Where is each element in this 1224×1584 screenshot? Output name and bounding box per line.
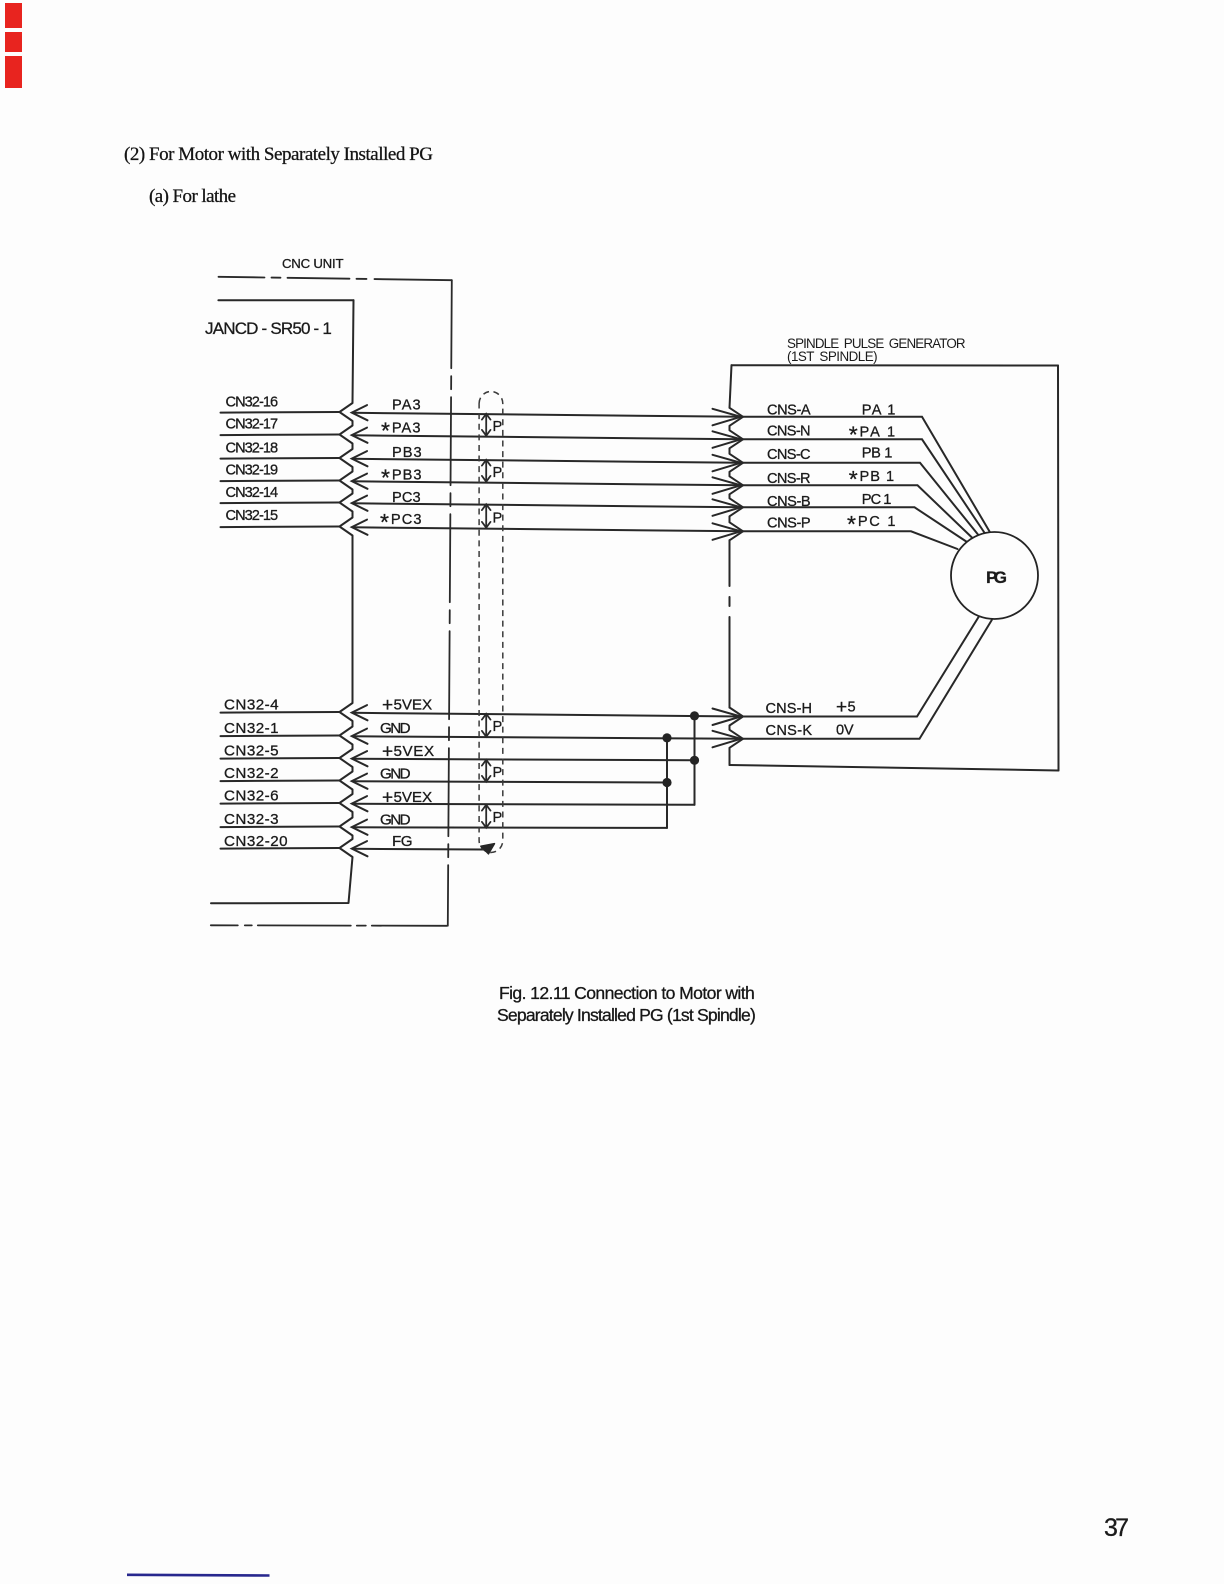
blue ink line bottom left <box>127 1574 270 1577</box>
svg-text:Fig. 12.11 Connection to Moto: Fig. 12.11 Connection to Motor with <box>499 983 755 1003</box>
twisted pair symbol P 3 <box>482 504 503 527</box>
pin row CN32-18 / signal PB3 wire to CNS-C <box>221 441 981 538</box>
svg-text:*PB 1: *PB 1 <box>849 466 895 492</box>
svg-text:GND: GND <box>380 766 411 783</box>
svg-text:Separately Installed PG (1st S: Separately Installed PG (1st Spindle) <box>497 1005 756 1025</box>
svg-text:0V: 0V <box>836 722 854 738</box>
svg-text:JANCD - SR50 - 1: JANCD - SR50 - 1 <box>205 319 334 338</box>
PG box top edge <box>732 364 1059 366</box>
svg-text:CN32-1: CN32-1 <box>224 720 279 737</box>
JANCD board top edge <box>218 299 353 301</box>
svg-text:P: P <box>493 465 503 481</box>
pin row CN32-20 / signal FG <box>221 833 485 857</box>
svg-text:CN32-3: CN32-3 <box>224 811 279 828</box>
pin row CN32-17 / signal *PA3 wire to CNS-N <box>221 417 987 536</box>
svg-text:P: P <box>493 810 503 826</box>
PG box right edge <box>1057 366 1060 771</box>
twisted pair symbol P 1 <box>482 414 503 436</box>
PG box left edge middle dashed segment <box>729 540 731 586</box>
PG box bottom edge <box>730 765 1059 771</box>
pin row CNS-H / +5 <box>713 616 980 726</box>
svg-text:P: P <box>493 511 503 527</box>
twisted pair symbol P 5 <box>482 760 503 782</box>
pin row CNS-K / 0V <box>713 620 992 747</box>
svg-text:CN32-5: CN32-5 <box>224 743 279 760</box>
svg-text:(a) For lathe: (a) For lathe <box>149 186 236 207</box>
PG box left edge lower segment with CNS-H / CNS-K notches <box>730 708 744 766</box>
svg-text:CN32-2: CN32-2 <box>224 765 279 782</box>
svg-text:CNS-C: CNS-C <box>767 447 811 463</box>
svg-text:CNS-N: CNS-N <box>767 423 811 439</box>
junction dot GND / CNS-K <box>662 733 671 742</box>
pin row CN32-16 / signal PA3 wire to CNS-A <box>221 395 992 535</box>
svg-text:(1ST SPINDLE): (1ST SPINDLE) <box>787 349 878 364</box>
junction dot +5 / CNS-H <box>690 711 699 720</box>
GND bus vertical wire <box>666 738 668 828</box>
svg-text:*PC 1: *PC 1 <box>847 511 896 537</box>
svg-text:CN32-6: CN32-6 <box>224 788 279 805</box>
pin row CN32-1 / signal GND <box>221 720 743 744</box>
twisted pair symbol P 6 <box>482 805 503 828</box>
svg-text:*PC3: *PC3 <box>380 509 422 535</box>
FG wire arrowhead into shield <box>481 844 495 854</box>
svg-text:CN32-14: CN32-14 <box>226 485 279 501</box>
svg-text:CNS-K: CNS-K <box>766 723 813 739</box>
svg-text:CN32-15: CN32-15 <box>226 508 279 524</box>
svg-text:CNS-H: CNS-H <box>766 701 813 717</box>
svg-text:P: P <box>493 719 503 735</box>
junction dot GND / CN32-2 <box>662 778 671 787</box>
pin row CN32-4 / signal +5VEX <box>221 695 743 720</box>
svg-text:(2) For Motor with Separately: (2) For Motor with Separately Installed … <box>124 144 433 165</box>
svg-text:PA3: PA3 <box>392 398 421 414</box>
svg-text:+5VEX: +5VEX <box>382 788 433 809</box>
cable shield dashed capsule <box>479 392 503 853</box>
CNC unit boundary chain line bottom <box>211 924 447 927</box>
twisted pair symbol P 2 <box>482 460 503 482</box>
PG pulse generator circle <box>951 532 1038 619</box>
svg-text:CNS-P: CNS-P <box>767 516 811 532</box>
CNC unit boundary chain line top <box>219 277 452 280</box>
svg-text:CNC UNIT: CNC UNIT <box>282 256 344 271</box>
twisted pair symbol P 4 <box>482 714 503 737</box>
CNC unit boundary chain line right vertical <box>448 280 452 926</box>
JANCD board right edge with connector notches <box>211 300 354 903</box>
svg-text:P: P <box>493 765 503 781</box>
svg-text:PG: PG <box>986 568 1008 587</box>
pin row CN32-3 / signal GND <box>221 811 668 835</box>
pin row CN32-2 / signal GND <box>221 765 668 789</box>
svg-text:FG: FG <box>392 833 413 850</box>
svg-text:*PA3: *PA3 <box>381 418 421 444</box>
pin row CN32-14 / signal PC3 wire to CNS-B <box>221 485 968 542</box>
PG box left edge upper segment with CNS connector notches <box>730 365 744 540</box>
pin row CN32-6 / signal +5VEX <box>221 788 695 812</box>
svg-text:CN32-18: CN32-18 <box>226 441 279 457</box>
svg-text:CN32-19: CN32-19 <box>226 463 279 479</box>
pin row CN32-15 / signal *PC3 wire to CNS-P <box>221 508 958 549</box>
pin row CN32-19 / signal *PB3 wire to CNS-R <box>221 463 974 540</box>
scanner red marks top-left <box>5 3 22 88</box>
svg-text:*PB3: *PB3 <box>381 465 422 491</box>
svg-text:CN32-16: CN32-16 <box>226 395 279 411</box>
svg-text:*PA 1: *PA 1 <box>849 421 896 447</box>
svg-text:PB 1: PB 1 <box>862 446 893 462</box>
pin row CN32-5 / signal +5VEX <box>221 741 695 766</box>
+5VEX bus vertical wire <box>694 716 696 805</box>
svg-text:P: P <box>493 419 503 435</box>
svg-text:37: 37 <box>1104 1514 1129 1542</box>
svg-text:CN32-4: CN32-4 <box>224 697 279 714</box>
svg-text:GND: GND <box>380 812 411 829</box>
svg-text:GND: GND <box>380 720 411 737</box>
junction dot +5 / CN32-5 <box>690 756 699 765</box>
svg-text:PC 1: PC 1 <box>862 492 892 508</box>
svg-text:+5: +5 <box>836 697 856 718</box>
svg-text:CN32-17: CN32-17 <box>226 417 279 433</box>
